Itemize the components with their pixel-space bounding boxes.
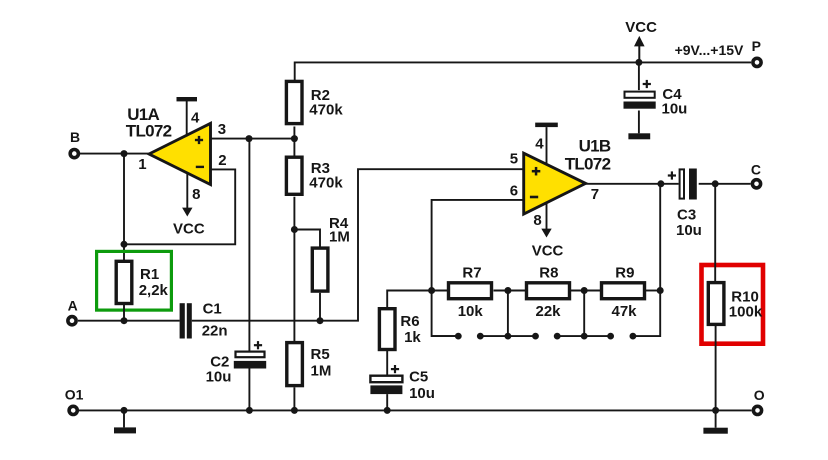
svg-text:C3: C3 bbox=[677, 207, 696, 224]
svg-text:C: C bbox=[751, 161, 761, 177]
resistor R5 bbox=[287, 343, 303, 386]
switch contact dots S3 bbox=[607, 333, 614, 340]
wire C3 to C bbox=[699, 183, 751, 185]
svg-text:1k: 1k bbox=[404, 329, 421, 346]
wire U1B output bbox=[586, 183, 679, 185]
wire R1 bottom bbox=[123, 305, 125, 321]
svg-text:R6: R6 bbox=[400, 313, 419, 330]
op-amp U1A bbox=[149, 123, 211, 184]
node ground junction left bbox=[121, 407, 128, 414]
svg-text:8: 8 bbox=[192, 186, 200, 203]
U1B pin 8 VCC arrow bbox=[546, 202, 548, 230]
svg-text:+9V...+15V: +9V...+15V bbox=[675, 42, 744, 58]
svg-text:7: 7 bbox=[591, 186, 599, 203]
svg-text:1M: 1M bbox=[329, 229, 350, 246]
wire R2 bottom bbox=[293, 127, 295, 157]
resistor R6 bbox=[379, 309, 395, 350]
wire A to C1 bbox=[78, 320, 180, 322]
svg-text:R5: R5 bbox=[311, 346, 330, 363]
svg-text:2,2k: 2,2k bbox=[139, 282, 169, 299]
U1A - input mark bbox=[196, 166, 204, 168]
svg-text:8: 8 bbox=[533, 212, 541, 229]
svg-text:R1: R1 bbox=[140, 266, 159, 283]
node R3/R4/R5 junction bbox=[291, 226, 298, 233]
wire R7/R8 junction drop bbox=[507, 291, 509, 337]
polarity + C4 bbox=[643, 83, 651, 85]
terminal O1 bbox=[69, 406, 77, 414]
svg-text:22k: 22k bbox=[536, 303, 562, 320]
wire R3 bottom bbox=[293, 197, 295, 342]
node pin3/C2 column junction bbox=[246, 135, 253, 142]
U1B - input mark bbox=[530, 196, 538, 199]
svg-text:1M: 1M bbox=[311, 363, 332, 380]
wire R1 column down bbox=[123, 154, 125, 261]
svg-text:2: 2 bbox=[218, 152, 226, 169]
node output/C3 junction bbox=[657, 180, 664, 187]
U1A pin 8 VCC arrow bbox=[186, 173, 188, 210]
svg-text:VCC: VCC bbox=[625, 19, 657, 36]
node divider left junction bbox=[428, 287, 435, 294]
wire R9 right bbox=[645, 290, 660, 292]
wire B to U1A output bbox=[80, 153, 150, 155]
svg-text:C5: C5 bbox=[409, 369, 428, 386]
capacitor C5 bbox=[370, 376, 402, 383]
power symbol U1A pin 4 bbox=[177, 97, 198, 101]
svg-text:R9: R9 bbox=[615, 265, 634, 282]
svg-text:10u: 10u bbox=[206, 368, 232, 385]
node R5 rail junction bbox=[291, 407, 298, 414]
svg-text:4: 4 bbox=[191, 109, 200, 126]
wire switch row segment 2 bbox=[480, 335, 535, 337]
node drop junction 2 bbox=[581, 333, 588, 340]
U1A + input mark bbox=[195, 139, 203, 141]
svg-text:TL072: TL072 bbox=[565, 155, 611, 174]
wire switch row segment 4 bbox=[633, 184, 660, 336]
svg-text:100k: 100k bbox=[729, 304, 763, 321]
svg-text:4: 4 bbox=[535, 136, 544, 153]
wire R6 to C5 bbox=[386, 351, 388, 376]
resistor R10 bbox=[708, 283, 724, 325]
svg-text:O1: O1 bbox=[65, 387, 84, 403]
svg-text:R7: R7 bbox=[462, 265, 481, 282]
terminal A bbox=[68, 317, 76, 325]
node R10 rail junction bbox=[712, 407, 719, 414]
svg-text:R8: R8 bbox=[539, 265, 558, 282]
ground below C4 bbox=[628, 133, 650, 139]
svg-text:10u: 10u bbox=[409, 385, 435, 402]
terminal P bbox=[753, 58, 761, 66]
wire U1A pin2 feedback bbox=[124, 169, 235, 244]
resistor R8 bbox=[527, 283, 570, 299]
svg-text:VCC: VCC bbox=[532, 243, 564, 260]
wire switch row segment 1 bbox=[432, 335, 459, 337]
wire U1A pin3 to R2/R3 bbox=[211, 138, 295, 140]
svg-text:5: 5 bbox=[510, 150, 518, 167]
resistor R9 bbox=[602, 283, 645, 299]
wire switch row segment 3 bbox=[557, 335, 610, 337]
node R7/R8 junction bbox=[504, 287, 511, 294]
op-amp U1B bbox=[524, 153, 586, 214]
node R8/R9 junction bbox=[581, 287, 588, 294]
svg-text:47k: 47k bbox=[612, 303, 638, 320]
wire to R4 bbox=[294, 230, 320, 248]
svg-text:1: 1 bbox=[138, 156, 146, 173]
terminal O bbox=[753, 406, 761, 414]
bottom rail wire bbox=[79, 409, 752, 411]
svg-text:B: B bbox=[70, 129, 80, 145]
terminal C bbox=[752, 180, 760, 188]
capacitor C4 bbox=[638, 62, 640, 90]
wire R7 row left bbox=[432, 290, 448, 292]
resistor R4 bbox=[312, 248, 328, 291]
svg-text:10u: 10u bbox=[662, 101, 688, 118]
U1B + input mark bbox=[532, 170, 541, 173]
svg-text:470k: 470k bbox=[309, 102, 343, 119]
resistor R7 bbox=[449, 283, 492, 299]
svg-text:VCC: VCC bbox=[173, 221, 205, 238]
ground symbol right bbox=[715, 410, 717, 427]
node C2 rail junction bbox=[246, 407, 253, 414]
capacitor C2 bbox=[236, 352, 265, 358]
terminal B bbox=[70, 150, 78, 158]
node drop junction 1 bbox=[505, 333, 512, 340]
svg-text:P: P bbox=[752, 38, 761, 54]
red highlight box bbox=[702, 265, 764, 344]
svg-text:22n: 22n bbox=[202, 323, 228, 340]
node feedback junction at R1 top bbox=[121, 241, 128, 248]
svg-text:10k: 10k bbox=[458, 303, 484, 320]
node C5 rail junction bbox=[384, 407, 391, 414]
wire top supply rail bbox=[295, 62, 751, 81]
svg-text:C1: C1 bbox=[203, 301, 222, 318]
svg-text:TL072: TL072 bbox=[126, 122, 172, 141]
svg-text:O: O bbox=[754, 387, 765, 403]
svg-text:U1B: U1B bbox=[579, 136, 611, 155]
resistor R3 bbox=[286, 157, 302, 194]
node R1 bottom junction bbox=[121, 317, 128, 324]
svg-text:6: 6 bbox=[510, 183, 518, 200]
wire R8-R9 bbox=[571, 290, 601, 292]
capacitor C1 bbox=[180, 303, 185, 338]
green highlight box bbox=[97, 251, 172, 310]
wire C2 column bbox=[248, 139, 250, 351]
polarity + C5 bbox=[391, 368, 399, 370]
power symbol U1B pin 4 bbox=[535, 123, 558, 128]
svg-text:3: 3 bbox=[218, 121, 226, 138]
capacitor C3 bbox=[680, 169, 684, 198]
svg-text:A: A bbox=[68, 298, 78, 314]
node VCC junction at C4 bbox=[635, 59, 642, 66]
node R9 right junction bbox=[657, 287, 664, 294]
wire R5 bottom bbox=[293, 387, 295, 410]
resistor R1 bbox=[116, 261, 132, 303]
resistor R2 bbox=[286, 81, 302, 123]
node C3/R10 junction bbox=[712, 180, 719, 187]
switch contact dots S1 bbox=[455, 333, 462, 340]
wire R4 bottom bbox=[319, 293, 321, 321]
wire R10 top bbox=[714, 184, 716, 282]
switch contact dots S2 bbox=[532, 333, 539, 340]
wire U1B pin6 to divider bbox=[432, 200, 524, 336]
wire R6 branch bbox=[387, 291, 431, 309]
polarity + C3 bbox=[668, 174, 676, 176]
wire R8/R9 junction drop bbox=[583, 291, 585, 337]
wire C1 to U1B pin5 riser bbox=[192, 169, 524, 321]
polarity + C2 bbox=[254, 344, 262, 346]
VCC arrow up bbox=[634, 36, 645, 47]
svg-text:10u: 10u bbox=[676, 222, 702, 239]
ground symbol left bbox=[123, 410, 125, 427]
wire R10 bottom bbox=[715, 325, 717, 410]
node junction B/R1 column bbox=[121, 150, 128, 157]
wire R7-R8 bbox=[494, 290, 526, 292]
node R4 bottom junction bbox=[317, 317, 324, 324]
node R2/R3 junction bbox=[291, 135, 298, 142]
svg-text:470k: 470k bbox=[309, 175, 343, 192]
